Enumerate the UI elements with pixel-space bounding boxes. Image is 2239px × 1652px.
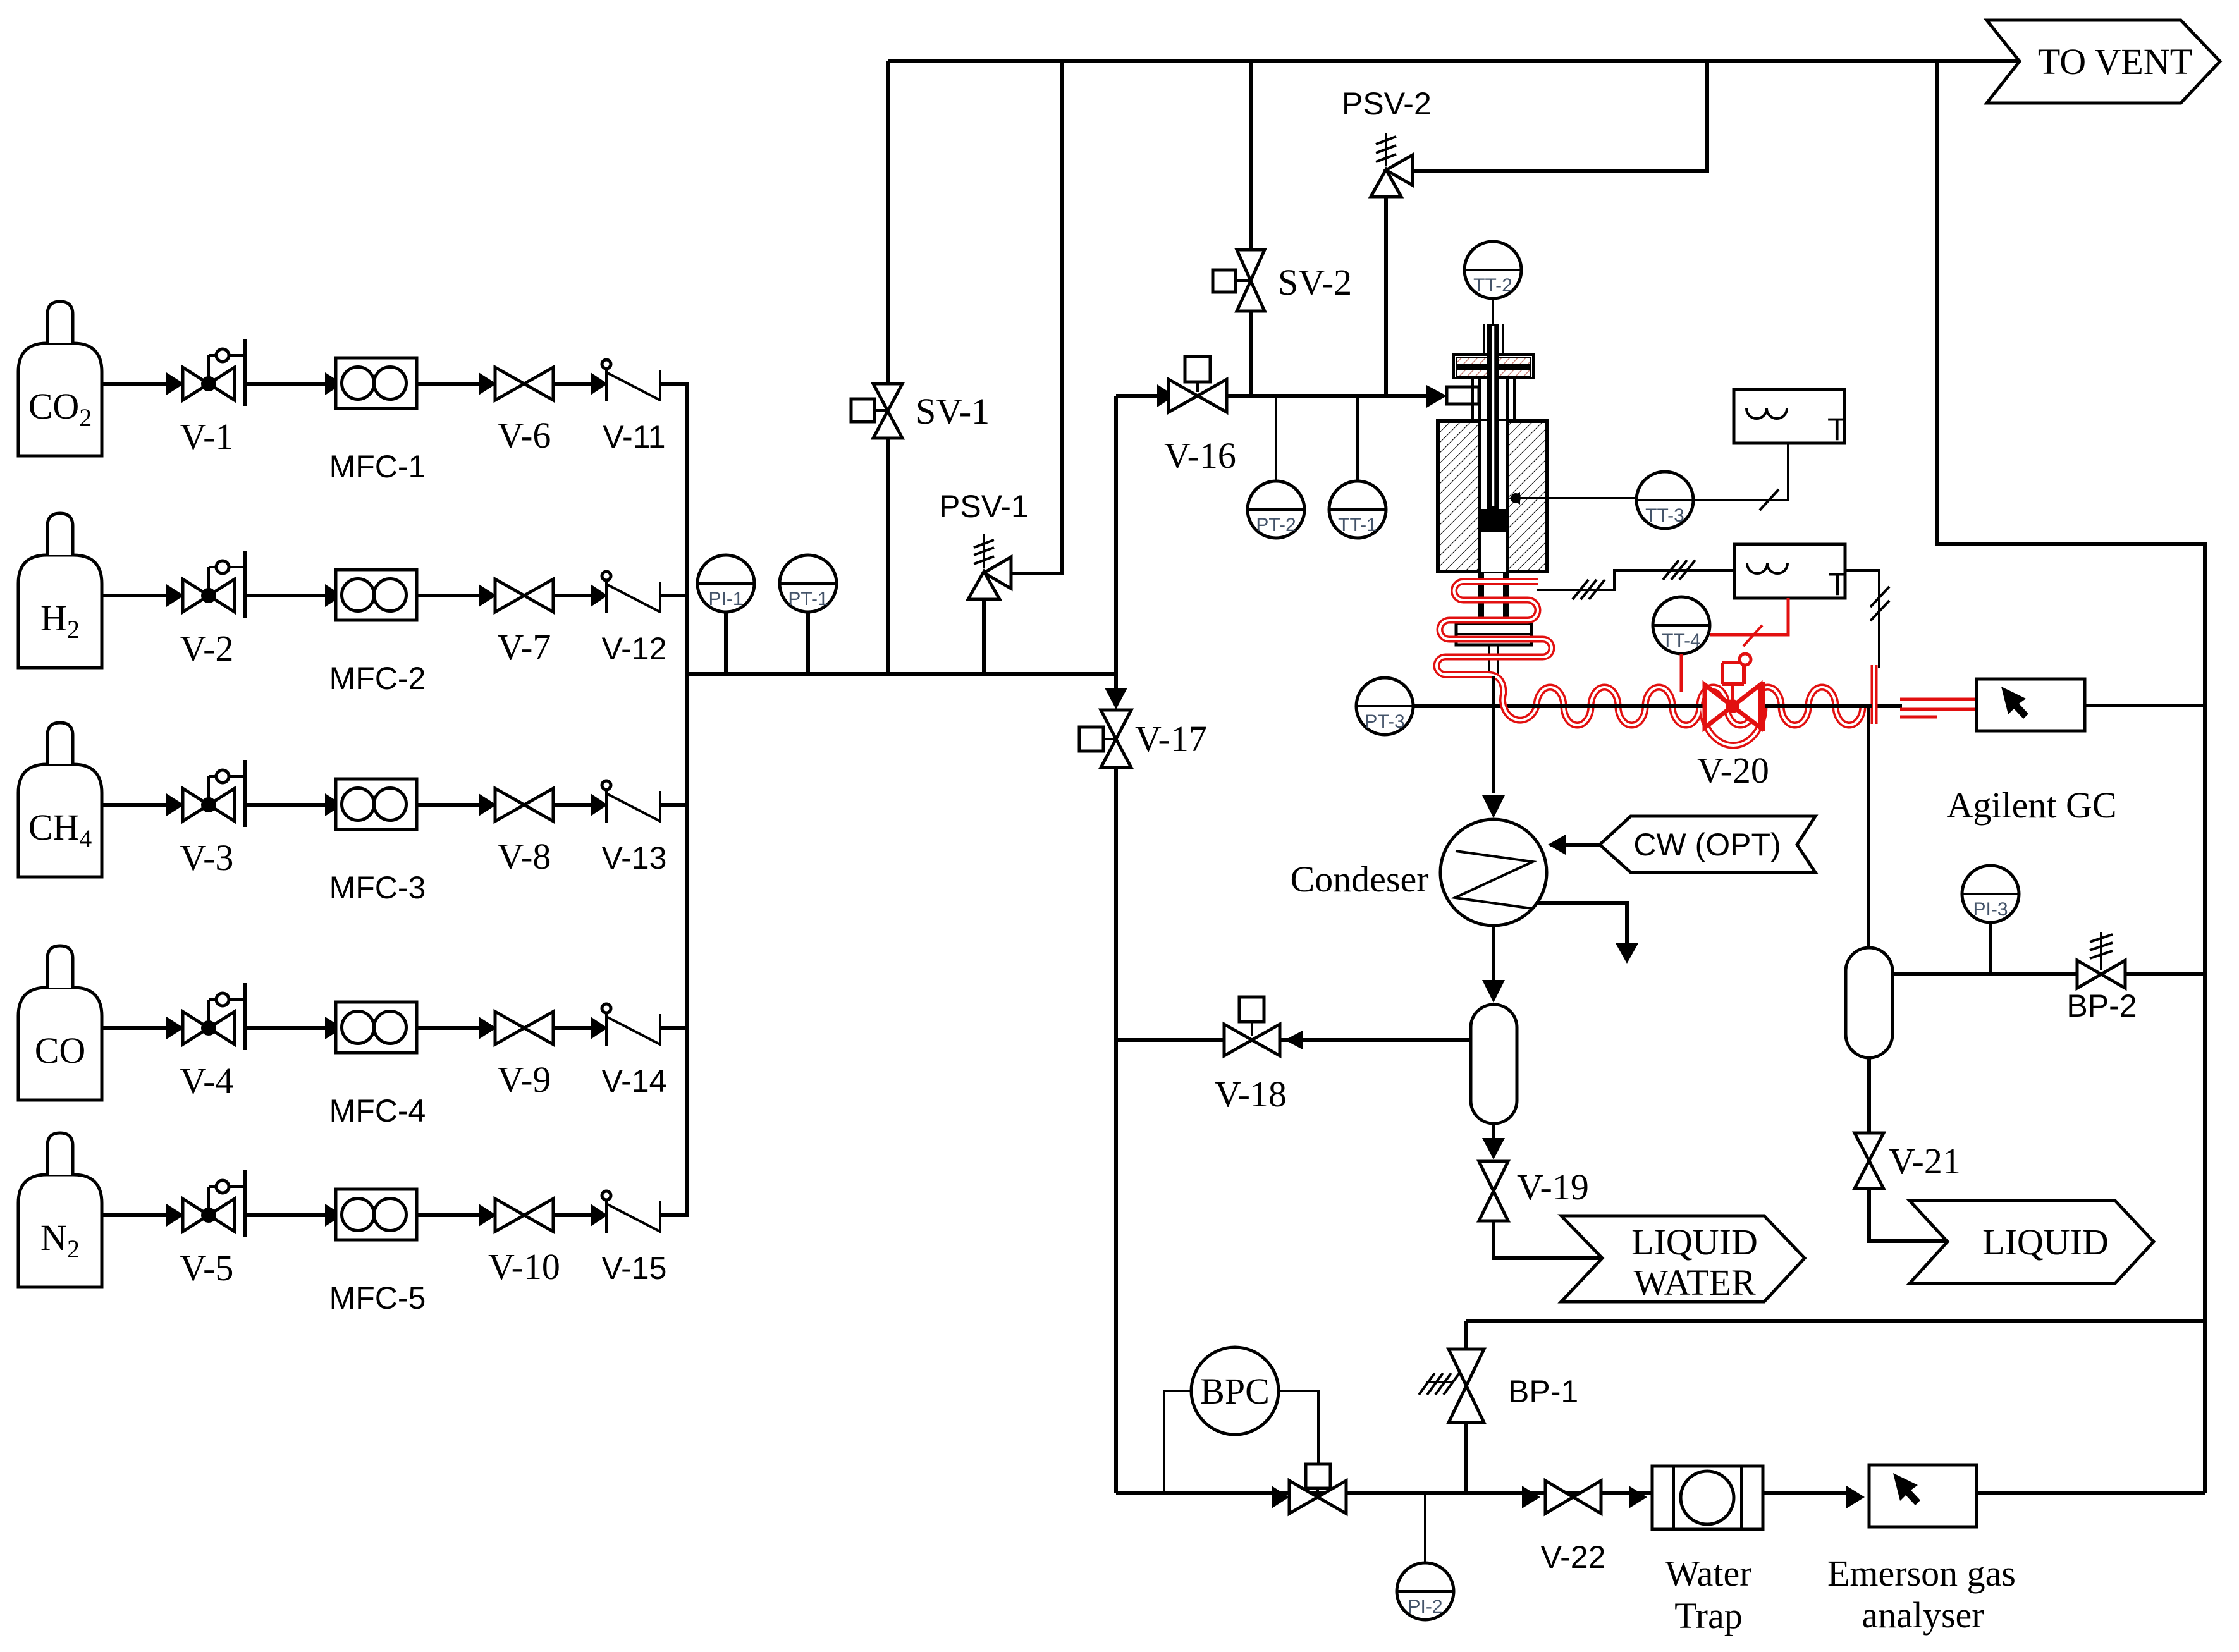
svg-text:V-18: V-18 <box>1215 1074 1287 1115</box>
analyser outlet wire <box>1977 1491 2205 1495</box>
valve V-22 <box>1522 1486 1540 1508</box>
water trap <box>1652 1466 1763 1529</box>
solenoid valve SV-2 <box>1237 250 1265 311</box>
svg-text:TT-4: TT-4 <box>1662 630 1701 651</box>
svg-text:MFC-3: MFC-3 <box>329 870 426 905</box>
SV-1 riser wire <box>886 61 890 674</box>
V-18 branch wire <box>1116 1038 1471 1042</box>
reactor top flange <box>1454 355 1533 378</box>
bottom flange <box>1456 623 1531 645</box>
SV-2 riser wire <box>1249 61 1253 396</box>
separator vessel <box>1471 1005 1517 1123</box>
left main vertical wire <box>1114 396 1118 1493</box>
svg-text:Emerson gas: Emerson gas <box>1827 1553 2016 1594</box>
temperature controller T2 <box>1734 544 1848 602</box>
stirrer shaft <box>1487 324 1499 511</box>
svg-text:V-4: V-4 <box>180 1060 234 1101</box>
BPC circle <box>1191 1347 1279 1435</box>
PSV-2 inlet wire <box>1384 197 1388 396</box>
relief valve PSV-2 <box>1371 169 1401 197</box>
svg-text:V-3: V-3 <box>180 837 234 878</box>
svg-text:TT-1: TT-1 <box>1338 515 1377 535</box>
vessel2 feed tee wire <box>1867 706 1870 948</box>
svg-text:Agilent GC: Agilent GC <box>1946 785 2116 826</box>
process line through coil <box>1511 704 1872 708</box>
svg-text:MFC-2: MFC-2 <box>329 661 426 696</box>
TT-3 signal wire <box>1693 443 1788 500</box>
transmitter PT-2 <box>1248 481 1304 538</box>
analyser inlet arrow <box>1846 1486 1865 1508</box>
gas train row 2 H2 <box>18 513 689 668</box>
svg-text:SV-2: SV-2 <box>1278 262 1352 303</box>
valve V-17 <box>1101 710 1131 768</box>
PI-3 stem <box>1989 922 1992 974</box>
vent right drop wire <box>1937 61 2205 1493</box>
back pressure control valve <box>1306 1464 1330 1488</box>
svg-text:V-15: V-15 <box>602 1251 667 1286</box>
svg-text:TT-3: TT-3 <box>1645 505 1684 526</box>
condenser outlet wire <box>1492 926 1495 980</box>
BP-1 riser wire <box>1464 1321 1468 1493</box>
solenoid valve SV-1 <box>873 384 902 438</box>
transmitter TT-1 <box>1329 481 1386 538</box>
TT-3 tap <box>1516 497 1636 499</box>
svg-text:V-6: V-6 <box>498 415 551 456</box>
reactor outlet wire through coil <box>1492 676 1495 793</box>
PSV-1 discharge wire <box>1011 61 1062 573</box>
svg-text:CW (OPT): CW (OPT) <box>1633 827 1781 862</box>
manifold line <box>687 672 1116 676</box>
svg-text:analyser: analyser <box>1862 1594 1984 1636</box>
svg-text:PSV-1: PSV-1 <box>939 489 1029 524</box>
svg-text:SV-1: SV-1 <box>916 391 990 432</box>
bottom process line <box>1116 1491 1848 1495</box>
PT-2 stem <box>1275 396 1277 482</box>
lower stem <box>1489 645 1498 676</box>
svg-text:MFC-1: MFC-1 <box>329 449 426 484</box>
TT-2 stem <box>1492 298 1494 326</box>
reactor furnace block <box>1438 421 1547 572</box>
reactor inlet arrow <box>1426 385 1447 408</box>
svg-text:V-8: V-8 <box>498 836 551 877</box>
svg-text:BP-1: BP-1 <box>1508 1374 1578 1409</box>
svg-text:V-20: V-20 <box>1697 750 1769 791</box>
svg-text:V-10: V-10 <box>488 1246 560 1287</box>
water trap inlet arrow <box>1629 1486 1647 1508</box>
BP-2 line <box>1892 972 2205 976</box>
svg-text:TT-2: TT-2 <box>1473 275 1512 296</box>
svg-text:LIQUID: LIQUID <box>1631 1221 1758 1263</box>
gas train row 5 N2 <box>18 1133 689 1287</box>
back pressure valve BP-1 <box>1449 1349 1484 1423</box>
svg-text:LIQUID: LIQUID <box>1982 1221 2109 1263</box>
svg-text:V-14: V-14 <box>602 1063 667 1099</box>
transmitter TT-2 <box>1464 242 1521 298</box>
transmitter TT-3 <box>1636 472 1693 529</box>
separator bottom wire <box>1492 1123 1495 1138</box>
PSV-2 discharge wire <box>1413 61 1707 171</box>
svg-text:MFC-5: MFC-5 <box>329 1280 426 1316</box>
gas train row 1 CO2 <box>18 302 689 456</box>
svg-text:PT-3: PT-3 <box>1365 711 1404 732</box>
V-16 inlet arrow <box>1157 384 1175 407</box>
heater signal wire with hashes <box>1537 570 1734 590</box>
valve V-17 arrow <box>1105 688 1127 709</box>
valve V-16 <box>1169 379 1227 412</box>
V-16 feed line <box>1116 394 1426 398</box>
valve V-19 <box>1479 1161 1508 1221</box>
valve V-21 <box>1855 1133 1884 1189</box>
temperature controller T1 <box>1734 389 1847 447</box>
svg-text:CO: CO <box>35 1030 86 1071</box>
svg-text:V-13: V-13 <box>602 840 667 876</box>
Agilent GC box <box>1977 679 2085 731</box>
reactor inlet port <box>1447 387 1479 404</box>
svg-text:WATER: WATER <box>1633 1262 1756 1303</box>
svg-text:V-7: V-7 <box>498 627 551 668</box>
svg-text:V-2: V-2 <box>180 628 234 669</box>
heated line to GC red pair <box>1900 699 1977 717</box>
svg-text:T: T <box>1827 412 1847 447</box>
TO VENT flag <box>1987 20 2220 103</box>
svg-text:V-9: V-9 <box>498 1059 551 1100</box>
svg-text:Condeser: Condeser <box>1290 859 1428 900</box>
svg-text:PSV-2: PSV-2 <box>1342 86 1432 121</box>
PT-1 stem <box>806 611 810 674</box>
PSV-1 inlet wire <box>982 598 986 674</box>
svg-text:PI-2: PI-2 <box>1408 1596 1442 1617</box>
svg-text:PI-1: PI-1 <box>708 589 743 609</box>
back pressure valve BP-2 <box>2077 960 2125 988</box>
gauge PI-3 <box>1962 866 2019 922</box>
svg-text:Trap: Trap <box>1674 1595 1742 1636</box>
svg-text:TO VENT: TO VENT <box>2038 41 2192 82</box>
svg-text:V-12: V-12 <box>602 631 667 666</box>
transmitter PT-3 <box>1356 678 1413 735</box>
svg-text:PI-3: PI-3 <box>1973 899 2008 920</box>
relief valve PSV-1 <box>968 572 1000 599</box>
GC outlet wire <box>2085 704 2205 707</box>
transmitter TT-4 <box>1653 597 1710 654</box>
svg-text:Water: Water <box>1665 1553 1751 1594</box>
svg-text:V-21: V-21 <box>1889 1141 1961 1182</box>
BPC right signal wire <box>1279 1391 1318 1464</box>
reactor outlet wire to condenser <box>1492 676 1495 793</box>
svg-text:V-19: V-19 <box>1517 1166 1589 1208</box>
catalyst plug <box>1481 509 1507 532</box>
BP-1 vent wire <box>1466 1319 2205 1323</box>
reactor tube <box>1484 324 1503 355</box>
svg-text:V-1: V-1 <box>180 416 234 457</box>
top vent header line <box>888 59 2021 63</box>
LIQUID WATER flag <box>1561 1216 1805 1302</box>
BPC left signal wire <box>1164 1391 1191 1493</box>
svg-text:V-11: V-11 <box>603 419 665 455</box>
svg-text:BP-2: BP-2 <box>2066 988 2137 1024</box>
header collection line <box>685 384 689 1215</box>
svg-text:T: T <box>1828 566 1848 602</box>
svg-text:V-17: V-17 <box>1135 718 1207 759</box>
control valve V-20 <box>1705 654 1764 731</box>
condenser <box>1440 819 1547 926</box>
PI-2 stem <box>1424 1493 1426 1563</box>
CW inlet arrow <box>1550 843 1600 847</box>
svg-text:PT-2: PT-2 <box>1256 515 1296 535</box>
heated line coil <box>1437 582 1874 745</box>
transmitter PT-1 <box>780 555 837 612</box>
TT-4 red probe wire <box>1680 654 1683 692</box>
liquid drain wire <box>1869 1189 1946 1241</box>
Emerson gas analyser box <box>1869 1465 1977 1527</box>
CW (OPT) flag <box>1600 816 1815 872</box>
gas train row 4 CO <box>18 946 689 1100</box>
svg-text:MFC-4: MFC-4 <box>329 1093 426 1129</box>
condenser feed arrow <box>1482 795 1505 818</box>
svg-text:PT-1: PT-1 <box>788 589 828 609</box>
drain wire to flag <box>1494 1221 1601 1258</box>
valve V-18 <box>1224 1024 1280 1056</box>
lower tube <box>1483 572 1504 623</box>
vessel 2 <box>1846 948 1892 1058</box>
svg-text:V-22: V-22 <box>1541 1539 1606 1575</box>
svg-text:BPC: BPC <box>1200 1371 1270 1412</box>
condenser drain wire <box>1536 903 1627 943</box>
gas train row 3 CH4 <box>18 723 689 877</box>
svg-text:V-5: V-5 <box>180 1247 234 1288</box>
gauge PI-1 <box>697 555 754 612</box>
TT-1 stem <box>1356 396 1359 482</box>
gauge PI-2 <box>1397 1563 1454 1620</box>
svg-text:V-16: V-16 <box>1164 435 1236 476</box>
T2 output signal wire <box>1845 570 1879 668</box>
vessel2 outlet wire <box>1867 1058 1871 1133</box>
process line PT-3 to GC <box>1357 704 1902 708</box>
LIQUID flag <box>1910 1201 2154 1283</box>
PI-1 stem <box>724 611 728 674</box>
TT-4 red signal to controller <box>1710 598 1788 635</box>
